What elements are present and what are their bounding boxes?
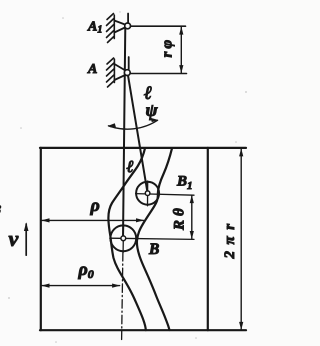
scan speckles bbox=[8, 11, 247, 343]
wall hatching A1 bbox=[107, 14, 115, 43]
pivot A bbox=[114, 57, 128, 80]
tape bottom edge bbox=[40, 329, 246, 331]
svg-text:Rθ: Rθ bbox=[172, 204, 188, 231]
svg-text:ρ: ρ bbox=[90, 195, 100, 215]
roller B1 bbox=[136, 182, 159, 205]
trace right wall bbox=[137, 148, 172, 330]
thread A to B1 bbox=[127, 72, 147, 193]
hub B bbox=[121, 236, 126, 241]
extension line from A bbox=[130, 73, 186, 75]
pivot pin circle A bbox=[124, 70, 130, 76]
svg-text:v: v bbox=[9, 226, 19, 251]
svg-text:8: 8 bbox=[0, 203, 2, 218]
dimension rho bbox=[42, 219, 144, 221]
extension line from A1 bbox=[129, 25, 186, 27]
center cross B bbox=[110, 225, 194, 253]
angle psi arc bbox=[109, 120, 158, 129]
centerline bbox=[122, 253, 123, 341]
svg-text:2πr: 2πr bbox=[222, 217, 238, 259]
dimension r-phi bbox=[180, 27, 182, 73]
tape top edge bbox=[40, 147, 246, 149]
trace left wall bbox=[108, 148, 145, 330]
velocity v arrow bbox=[25, 224, 27, 255]
dimension 2-pi-r bbox=[240, 149, 242, 330]
svg-text:A: A bbox=[87, 62, 97, 77]
svg-text:ψ: ψ bbox=[146, 100, 159, 120]
svg-text:ℓ: ℓ bbox=[127, 157, 134, 176]
svg-text:B: B bbox=[148, 241, 159, 258]
svg-text:rφ: rφ bbox=[160, 37, 176, 58]
thread A1 to B bbox=[123, 26, 125, 238]
pivot A1 bbox=[114, 14, 128, 33]
tape left edge bbox=[40, 148, 42, 330]
dimension R-theta bbox=[191, 196, 193, 239]
pivot pin circle A1 bbox=[125, 23, 131, 29]
wall hatching A bbox=[107, 58, 115, 87]
dimension rho0 bbox=[42, 285, 120, 287]
tape right edge bbox=[207, 148, 209, 330]
center cross B1 bbox=[136, 181, 194, 206]
roller B bbox=[110, 225, 136, 251]
hub B1 bbox=[145, 191, 150, 196]
